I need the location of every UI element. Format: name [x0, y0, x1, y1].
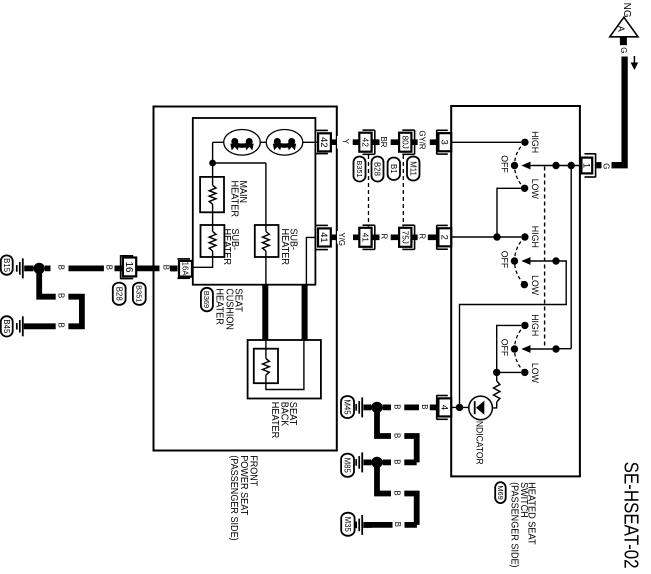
svg-text:1: 1 [580, 163, 591, 168]
svg-text:LOW: LOW [529, 179, 540, 199]
svg-text:SE-HSEAT-02: SE-HSEAT-02 [619, 462, 642, 569]
svg-text:B351: B351 [135, 285, 144, 302]
svg-text:B: B [57, 323, 66, 328]
svg-text:HEATER: HEATER [269, 402, 280, 439]
svg-text:B: B [392, 404, 401, 409]
svg-text:M11: M11 [408, 161, 417, 176]
svg-text:HEATER: HEATER [221, 229, 232, 266]
svg-text:42: 42 [360, 137, 370, 147]
svg-text:75J: 75J [400, 231, 409, 244]
svg-text:M85: M85 [343, 458, 352, 474]
svg-text:B: B [162, 265, 171, 270]
svg-text:M35: M35 [343, 517, 352, 533]
svg-text:B: B [105, 265, 114, 270]
svg-text:4: 4 [438, 405, 449, 410]
svg-text:A: A [616, 26, 626, 32]
svg-text:B: B [392, 459, 401, 464]
svg-text:B369: B369 [202, 291, 211, 308]
svg-text:HIGH: HIGH [529, 226, 540, 248]
svg-text:R: R [418, 234, 427, 240]
svg-text:16A: 16A [181, 262, 190, 277]
svg-text:B: B [57, 265, 66, 270]
svg-text:HIGH: HIGH [529, 131, 540, 153]
svg-text:2: 2 [438, 235, 449, 240]
svg-text:HIGH: HIGH [529, 314, 540, 336]
svg-text:BR: BR [379, 137, 388, 148]
svg-text:LOW: LOW [529, 363, 540, 383]
svg-text:B28: B28 [373, 162, 382, 176]
svg-text:41: 41 [360, 233, 370, 243]
svg-text:3: 3 [438, 140, 449, 145]
svg-text:42: 42 [318, 137, 329, 148]
svg-text:LOW: LOW [529, 275, 540, 295]
svg-text:INDICATOR: INDICATOR [475, 419, 485, 466]
svg-text:GY/R: GY/R [418, 131, 427, 150]
svg-text:41: 41 [318, 232, 329, 243]
svg-text:G: G [619, 47, 628, 53]
svg-text:(PASSENGER SIDE): (PASSENGER SIDE) [228, 455, 239, 541]
svg-text:R: R [380, 234, 389, 240]
svg-text:HEATER: HEATER [214, 288, 225, 325]
svg-text:B351: B351 [355, 160, 364, 177]
svg-text:NG: NG [621, 3, 632, 18]
svg-text:OFF: OFF [499, 339, 510, 357]
svg-text:(PASSENGER SIDE): (PASSENGER SIDE) [508, 482, 519, 568]
svg-text:B: B [57, 293, 66, 298]
svg-text:B: B [420, 404, 429, 409]
svg-text:OFF: OFF [499, 155, 510, 173]
svg-text:Y: Y [341, 139, 350, 145]
svg-text:B45: B45 [2, 319, 11, 334]
svg-text:M45: M45 [343, 399, 352, 415]
svg-text:B28: B28 [114, 287, 123, 301]
svg-text:HEATER: HEATER [279, 229, 290, 266]
svg-text:80J: 80J [400, 136, 409, 149]
svg-text:B: B [393, 522, 402, 527]
svg-text:M69: M69 [496, 485, 505, 499]
svg-text:B15: B15 [2, 258, 11, 273]
svg-text:B: B [392, 433, 401, 438]
svg-text:OFF: OFF [499, 251, 510, 269]
svg-text:B: B [392, 491, 401, 496]
svg-text:HEATER: HEATER [228, 181, 239, 218]
svg-text:B1: B1 [389, 164, 398, 174]
svg-text:16: 16 [123, 262, 134, 273]
svg-text:G: G [601, 163, 610, 169]
svg-text:Y/G: Y/G [337, 233, 346, 246]
